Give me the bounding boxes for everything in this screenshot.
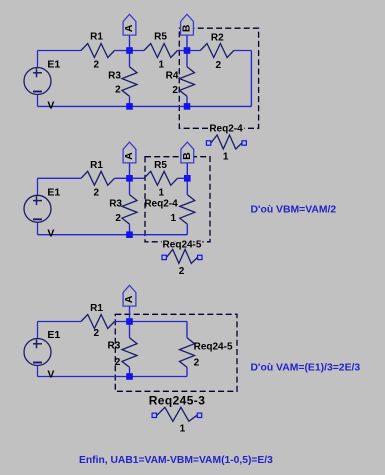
svg-text:E1: E1 xyxy=(47,187,60,199)
voltage source E1 xyxy=(24,68,51,95)
equivalent resistor Req24-5 xyxy=(167,249,198,263)
svg-text:R3: R3 xyxy=(108,70,121,81)
voltage source E1 xyxy=(24,195,51,222)
svg-text:1: 1 xyxy=(159,59,165,70)
wire R2 to right corner xyxy=(234,50,252,52)
svg-text:R1: R1 xyxy=(90,303,103,314)
svg-text:2: 2 xyxy=(94,188,100,199)
svg-text:Req2-4: Req2-4 xyxy=(209,124,243,135)
wire E1 bottom lead xyxy=(37,222,39,234)
wire R3 top lead (circuit 3) xyxy=(129,322,131,338)
svg-text:1: 1 xyxy=(159,188,165,199)
wire R1 to R5 (circuit 2) xyxy=(115,177,145,179)
dashed box Req245-3 group (circuit 3) xyxy=(115,314,237,391)
svg-text:R1: R1 xyxy=(90,160,103,171)
plus terminal xyxy=(33,72,42,74)
svg-text:Req24-5: Req24-5 xyxy=(163,239,202,250)
plus terminal xyxy=(33,200,42,202)
wire E1 bottom lead xyxy=(37,366,39,377)
svg-text:R1: R1 xyxy=(90,32,103,43)
wire R3 bottom lead (circuit 2) xyxy=(129,224,131,235)
junction bottom R4 (circuit 1) xyxy=(184,103,191,110)
svg-text:E1: E1 xyxy=(47,59,60,71)
wire R5 to R2 xyxy=(178,50,201,52)
wire R4 bottom lead xyxy=(186,96,188,106)
svg-text:Req2-4: Req2-4 xyxy=(144,199,178,210)
wire E1 bottom lead xyxy=(37,95,39,107)
wire node A to right corner (circuit 3) xyxy=(115,321,188,323)
equivalent resistor Req2-4 (circuit 2, vertical) xyxy=(180,195,195,225)
plus terminal xyxy=(33,343,42,345)
wire R3 bottom lead xyxy=(129,96,131,106)
wire bottom rail circuit 2 xyxy=(38,234,188,236)
minus terminal xyxy=(33,362,42,364)
svg-text:R2: R2 xyxy=(211,33,224,44)
wire bottom rail circuit 1 xyxy=(38,105,252,107)
svg-text:1: 1 xyxy=(170,213,176,224)
equivalent resistor Req24-5 (circuit 3, vertical) xyxy=(180,338,195,368)
svg-text:V: V xyxy=(47,369,54,381)
wire top rail circuit 1 xyxy=(38,50,82,52)
svg-text:V: V xyxy=(47,99,54,111)
svg-text:D'où VAM=(E1)/3=2E/3: D'où VAM=(E1)/3=2E/3 xyxy=(251,362,361,373)
probe flag B xyxy=(181,142,194,163)
svg-text:R3: R3 xyxy=(109,199,122,210)
wire R5 to node B (circuit 2) xyxy=(178,177,188,179)
node B junction (circuit 1) xyxy=(184,47,191,54)
svg-text:2: 2 xyxy=(115,85,121,96)
minus terminal xyxy=(33,218,42,220)
wire probe stem A xyxy=(129,163,131,178)
svg-text:D'où VBM=VAM/2: D'où VBM=VAM/2 xyxy=(251,204,337,215)
svg-text:1: 1 xyxy=(223,151,229,162)
resistor R3 (circuit 3) xyxy=(122,338,137,368)
svg-text:Enfin, UAB1=VAM-VBM=VAM(1-0,5): Enfin, UAB1=VAM-VBM=VAM(1-0,5)=E/3 xyxy=(79,455,273,466)
resistor R1 (circuit 1) xyxy=(81,44,115,58)
equivalent resistor Req245-3 xyxy=(157,407,197,421)
svg-text:2: 2 xyxy=(194,358,200,369)
wire Req24-5 bottom lead (circuit 3) xyxy=(186,367,188,376)
wire probe stem B xyxy=(186,163,188,178)
svg-text:R5: R5 xyxy=(154,32,167,43)
equivalent resistor Req2-4 xyxy=(211,135,242,149)
svg-text:Req245-3: Req245-3 xyxy=(149,393,206,407)
resistor R1 (circuit 3) xyxy=(81,315,115,329)
resistor R1 (circuit 2) xyxy=(81,171,115,185)
dashed box Req24-5 group (circuit 2) xyxy=(145,157,210,242)
probe flag A xyxy=(123,14,136,35)
resistor R3 (circuit 2) xyxy=(122,195,137,225)
svg-text:2: 2 xyxy=(115,357,121,368)
node A junction (circuit 2) xyxy=(126,175,133,182)
svg-text:2: 2 xyxy=(94,328,100,339)
svg-text:A: A xyxy=(123,152,135,160)
node A junction (circuit 3) xyxy=(126,318,133,325)
svg-text:2: 2 xyxy=(179,266,185,277)
voltage source E1 xyxy=(24,339,51,366)
wire E1 top lead xyxy=(37,322,39,339)
svg-text:2: 2 xyxy=(94,59,100,70)
wire right edge circuit 1 xyxy=(250,51,252,107)
minus terminal xyxy=(33,91,42,93)
svg-text:2: 2 xyxy=(216,60,222,71)
svg-text:R4: R4 xyxy=(166,70,179,81)
wire probe stem B xyxy=(186,35,188,50)
wire R4 top lead xyxy=(186,51,188,67)
svg-text:B: B xyxy=(181,24,193,32)
svg-text:A: A xyxy=(123,24,135,32)
resistor R3 (circuit 1) xyxy=(122,67,137,97)
svg-text:E1: E1 xyxy=(47,329,60,341)
svg-text:2: 2 xyxy=(115,213,121,224)
probe flag B xyxy=(181,14,194,35)
wire probe stem A xyxy=(129,35,131,50)
svg-text:Req24-5: Req24-5 xyxy=(194,342,233,353)
resistor R5 (circuit 1) xyxy=(144,44,178,58)
wire R1 to R5 xyxy=(115,50,145,52)
wire probe stem A xyxy=(129,306,131,321)
junction bottom R3 (circuit 3) xyxy=(126,373,133,380)
svg-text:R3: R3 xyxy=(108,341,121,352)
svg-text:V: V xyxy=(47,228,54,240)
wire top rail circuit 2 xyxy=(38,177,82,179)
wire bottom rail circuit 3 xyxy=(38,376,188,378)
junction bottom R3 (circuit 1) xyxy=(126,103,133,110)
svg-text:B: B xyxy=(181,152,193,160)
wire E1 top lead xyxy=(37,178,39,195)
node A junction (circuit 1) xyxy=(126,47,133,54)
resistor R4 (circuit 1) xyxy=(180,67,195,97)
probe flag A xyxy=(123,285,136,306)
dashed box Req2-4 group (circuit 1) xyxy=(179,28,258,128)
svg-text:A: A xyxy=(123,295,135,303)
probe flag A xyxy=(123,142,136,163)
wire R3 top lead xyxy=(129,51,131,67)
wire Req2-4 top lead (circuit 2) xyxy=(186,178,188,194)
svg-text:2: 2 xyxy=(172,85,178,96)
wire E1 top lead xyxy=(37,51,39,68)
node B junction (circuit 2) xyxy=(184,175,191,182)
junction bottom R3 (circuit 2) xyxy=(126,231,133,238)
wire top rail circuit 3 xyxy=(38,321,82,323)
wire R3 top lead (circuit 2) xyxy=(129,178,131,194)
resistor R2 (circuit 1) xyxy=(200,44,234,58)
wire Req2-4 bottom lead (circuit 2) xyxy=(186,224,188,235)
wire R3 bottom lead (circuit 3) xyxy=(129,367,131,376)
svg-text:1: 1 xyxy=(180,423,186,434)
wire Req24-5 top lead (circuit 3) xyxy=(186,322,188,338)
svg-text:R5: R5 xyxy=(154,160,167,171)
resistor R5 (circuit 2) xyxy=(144,171,178,185)
